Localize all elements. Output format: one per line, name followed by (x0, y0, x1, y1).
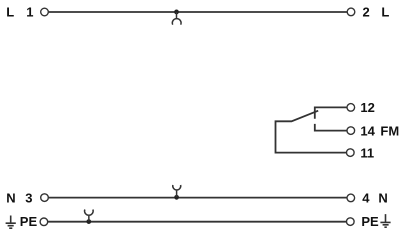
terminal 14 (347, 127, 355, 135)
svg-text:PE: PE (20, 214, 38, 229)
svg-text:1: 1 (26, 5, 33, 20)
svg-text:FM: FM (380, 123, 399, 138)
earth symbol right of PE (380, 214, 390, 227)
svg-text:N: N (378, 191, 387, 206)
spark-gap electrode tap on L (fork opening down) (172, 12, 181, 25)
svg-text:L: L (6, 5, 14, 20)
NO fixed contact and wire to terminal 14 (315, 124, 347, 131)
svg-text:3: 3 (25, 190, 32, 205)
terminal 3 (41, 194, 49, 202)
junction dot on N wire (174, 195, 179, 200)
svg-text:14: 14 (360, 123, 375, 138)
svg-text:2: 2 (363, 5, 370, 20)
earth symbol left of PE (6, 216, 16, 229)
terminal 11 (347, 149, 355, 157)
spark-gap electrode tap on N (fork opening up) (173, 185, 181, 197)
changeover relay contact: common arm from terminal 11 (276, 111, 347, 153)
svg-text:12: 12 (360, 100, 374, 115)
junction dot on L wire (174, 10, 179, 15)
wire N: terminal 3 to terminal 4 (49, 197, 347, 199)
svg-text:11: 11 (360, 145, 374, 160)
terminal PE right (347, 218, 355, 226)
terminal 1 (41, 8, 49, 16)
svg-text:PE: PE (361, 214, 379, 229)
svg-text:L: L (381, 5, 389, 20)
junction dot on PE wire (86, 219, 91, 224)
svg-text:4: 4 (362, 191, 370, 206)
terminal 2 (347, 8, 355, 16)
terminal 4 (347, 194, 355, 202)
wire L: terminal 1 to terminal 2 (49, 11, 347, 13)
NC fixed contact and wire to terminal 12 (315, 107, 347, 118)
wire PE (48, 221, 346, 223)
terminal PE left (40, 218, 48, 226)
terminal 12 (347, 104, 355, 112)
svg-text:N: N (6, 190, 15, 205)
spark-gap electrode tap on PE (fork opening up) (85, 210, 94, 222)
